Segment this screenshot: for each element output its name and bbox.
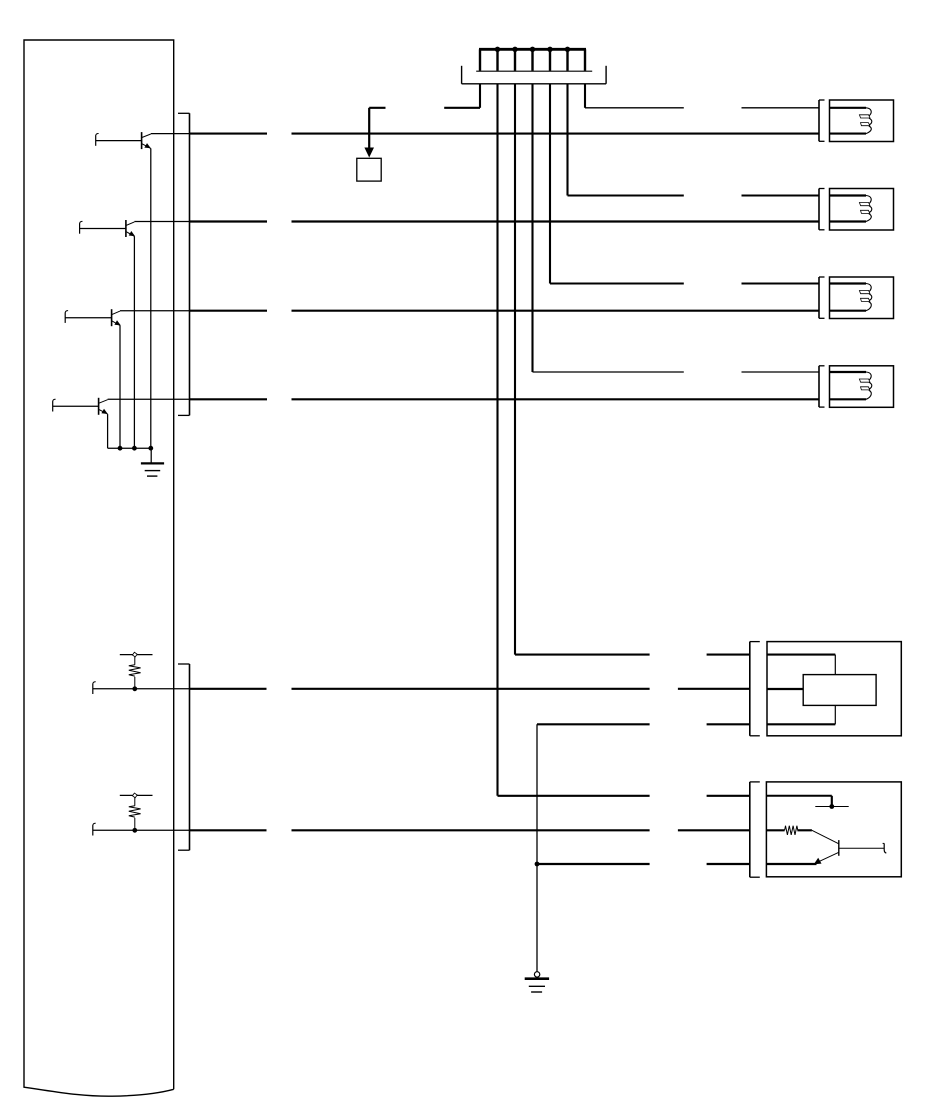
wire pin2 turn to sensor top — [498, 795, 650, 797]
wire emitter of Q3 down — [119, 326, 121, 449]
wire sensor top — [766, 796, 831, 807]
connector bracket sensor — [750, 782, 760, 877]
wire relay top right segment — [707, 654, 750, 656]
wire stub (break symbol) row B — [93, 823, 96, 835]
wire power row 2 right segment — [742, 195, 820, 197]
injector 4 coil — [859, 372, 871, 399]
wire pin 7 drop — [584, 84, 586, 108]
ground (chassis) — [525, 979, 549, 992]
wire stub (break symbol) Q5 base — [883, 843, 887, 853]
wire injector 3 coil top — [830, 282, 867, 284]
wire injector 2 coil bottom — [830, 220, 867, 222]
resistor RA (pull-up) — [129, 665, 141, 676]
pin 7 upper — [584, 49, 586, 71]
wire sensor bottom right segment — [707, 863, 750, 865]
wire resistor lead lower B — [134, 818, 136, 831]
wire row 1 long segment to injector — [292, 133, 820, 135]
wire base of Q2 — [80, 228, 126, 230]
junction node emitter Q3 — [118, 446, 123, 451]
square symbol (off-page link) — [357, 158, 381, 181]
wire row 2 long segment to injector — [292, 220, 820, 222]
wire row B mid segment — [292, 829, 650, 831]
wire stub (break symbol) at base of Q1 — [96, 134, 99, 146]
wire collector row 2 inside ECU — [134, 221, 189, 223]
wire row B inside ECU — [93, 829, 190, 831]
junction node bus pin 2 — [495, 47, 500, 52]
connector bracket injector 4 — [819, 366, 825, 407]
wire sensor top right segment — [707, 795, 750, 797]
transistor Q5 — [812, 830, 839, 864]
sensor element plate — [815, 806, 848, 808]
junction node bus pin 3 — [512, 47, 517, 52]
wire relay top riser — [834, 655, 836, 675]
injector 2 box — [830, 189, 894, 231]
wire power row 4 left segment — [533, 371, 684, 373]
terminal mark rail B — [132, 793, 137, 798]
pin 5 upper — [549, 49, 551, 71]
arrow into symbol — [364, 148, 374, 158]
wire power rail A — [120, 654, 153, 656]
wire power row 3 right segment — [742, 283, 820, 285]
wire power row 1 right segment — [742, 107, 820, 109]
ECU control module box — [24, 40, 174, 1096]
wire emitter of Q4 down — [107, 414, 109, 448]
connector strip line — [476, 70, 592, 72]
ground (ECU internal) — [141, 463, 164, 476]
wire collector row 3 inside ECU — [120, 310, 190, 312]
wire base of Q3 — [65, 317, 111, 319]
wire row 2 bold segment — [190, 220, 268, 222]
junction node emitter Q1 — [148, 446, 153, 451]
connector C2 bracket — [178, 664, 190, 850]
wire pin 5 drop — [549, 84, 551, 284]
wire row A bold segment — [190, 688, 267, 690]
wire sensor bottom left segment — [537, 863, 650, 865]
wire pin 2 drop — [496, 84, 498, 796]
resistor RB (pull-up) — [129, 806, 141, 817]
injector 3 box — [830, 277, 894, 319]
terminal mark rail A — [132, 652, 137, 657]
wire emitter of Q2 down — [133, 236, 135, 448]
wire relay bottom left segment — [537, 723, 650, 725]
wire base of Q4 — [53, 405, 99, 407]
wire relay bottom right segment — [707, 723, 750, 725]
wire sensor mid — [766, 829, 784, 831]
wire injector 1 coil top — [830, 107, 867, 109]
wire row 3 bold segment — [190, 310, 268, 312]
wire row 3 long segment to injector — [292, 310, 820, 312]
relay inner contact box — [803, 675, 876, 706]
wire row A inside ECU — [93, 688, 190, 690]
connector bracket injector 2 — [819, 189, 825, 230]
injector 3 coil — [859, 284, 871, 311]
wire resistor lead upper B — [134, 795, 136, 805]
connector bracket relay — [750, 642, 760, 736]
wire emitter of Q1 down — [150, 148, 152, 448]
wire stub (break symbol) at base of Q3 — [65, 311, 68, 323]
junction node bus pin 5 — [547, 47, 552, 52]
wire injector 1 coil bottom — [830, 133, 867, 135]
wire relay bottom — [767, 723, 835, 725]
junction node bus pin 4 — [530, 47, 535, 52]
injector 2 coil — [859, 196, 871, 222]
pin 1 upper — [479, 49, 481, 71]
junction node emitter Q2 — [132, 446, 137, 451]
wire pin3 turn to relay top — [515, 654, 650, 656]
ground eyelet — [534, 972, 539, 977]
pin 6 upper — [566, 49, 568, 71]
wire power row 4 right segment — [742, 371, 820, 373]
junction node row B — [132, 828, 137, 833]
wire row A mid segment — [292, 688, 650, 690]
wire injector 2 coil top — [830, 194, 867, 196]
wire pin 3 drop — [514, 84, 516, 655]
wire stub (break symbol) row A — [93, 682, 96, 694]
wire row B bold segment — [190, 829, 267, 831]
junction node sensor element — [829, 804, 834, 809]
pin 4 upper — [531, 49, 533, 71]
pin 3 upper — [514, 49, 516, 71]
wire ground drop — [536, 724, 538, 971]
wire stub (break symbol) at base of Q2 — [80, 221, 83, 233]
connector shell — [462, 66, 606, 84]
wire row 4 bold segment — [190, 398, 268, 400]
wire after resistor — [797, 829, 812, 831]
wire base lead Q5 — [839, 847, 884, 849]
wire relay bottom riser — [834, 705, 836, 724]
sensor box — [766, 782, 901, 877]
wire row 4 long segment to injector — [292, 398, 820, 400]
wire power row 1 left segment — [585, 107, 684, 109]
junction node bus pin 6 — [565, 47, 570, 52]
injector 1 box — [830, 100, 894, 142]
transistor Q4 — [99, 398, 108, 415]
junction node ground branch — [535, 862, 540, 867]
connector bracket injector 3 — [819, 277, 825, 318]
wire stub (break symbol) at base of Q4 — [53, 399, 56, 411]
connector bracket injector 1 — [819, 100, 825, 141]
connector C1 bracket — [178, 113, 190, 415]
wire row A right segment — [678, 688, 750, 690]
wire pin 1 drop — [479, 84, 481, 108]
wire power rail B — [120, 794, 153, 796]
transistor Q1 — [142, 132, 151, 149]
wire resistor lead upper A — [134, 655, 136, 665]
wire collector row 4 inside ECU — [108, 398, 190, 400]
wire resistor lead lower A — [134, 677, 136, 689]
wire row 1 bold segment — [190, 133, 268, 135]
transistor Q2 — [126, 220, 135, 237]
wire base of Q1 — [96, 140, 142, 142]
injector 1 coil — [859, 108, 871, 134]
wire emitter ground bus — [108, 447, 152, 449]
wire power row 3 left segment — [550, 283, 684, 285]
wire row B right segment — [678, 829, 750, 831]
injector 4 box — [830, 366, 894, 408]
wire injector 4 coil bottom — [830, 398, 867, 400]
transistor Q3 — [112, 309, 121, 326]
wire injector 3 coil bottom — [830, 310, 867, 312]
wire pin 6 drop — [566, 84, 568, 196]
wire relay top — [767, 654, 835, 656]
junction node row A — [132, 686, 137, 691]
resistor R5 (sensor) — [785, 826, 798, 835]
wire relay mid — [767, 688, 803, 690]
wire arrow stub — [369, 107, 385, 109]
jumper bus bar — [479, 48, 586, 51]
wire power row 2 left segment — [568, 195, 684, 197]
wire injector 4 coil top — [830, 371, 867, 373]
wire collector row 1 inside ECU — [151, 133, 190, 135]
relay box — [767, 642, 901, 736]
wire pin 1 left segment — [444, 107, 480, 109]
pin 2 upper — [496, 49, 498, 71]
wire sensor bottom — [766, 863, 816, 865]
wire pin 4 drop — [531, 84, 533, 372]
wire ground tail — [150, 448, 152, 463]
wire arrow vertical — [368, 108, 370, 149]
